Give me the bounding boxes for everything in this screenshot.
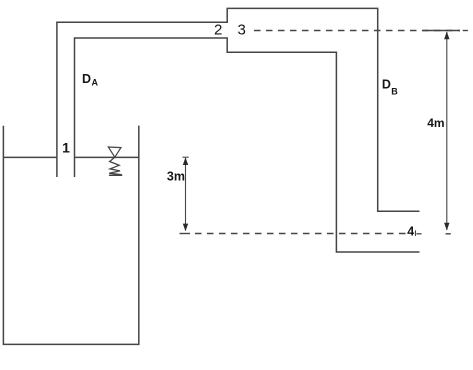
valve triangle above water surface [108,147,121,157]
3m dimension line [185,158,187,231]
svg-text:D: D [82,72,91,86]
short tick at bottom of 4m dimension [446,233,451,235]
dashed centerline at level 4 (bottom) [195,233,406,235]
tank (reservoir) walls [3,126,138,345]
svg-text:1: 1 [62,140,70,156]
3m dimension bottom arrowhead [183,224,188,232]
3m dimension top tick [183,156,189,158]
svg-text:3m: 3m [167,170,185,184]
final dash of top centerline [463,30,468,32]
3m dimension top arrowhead [183,157,188,165]
tick at left end of level-4 dashed line [180,233,191,235]
svg-text:4m: 4m [427,116,444,130]
svg-text:D: D [382,78,391,92]
svg-text:B: B [391,86,398,96]
svg-text:2: 2 [214,22,222,39]
water surface line left of pipe [3,156,56,158]
4m dimension top arrowhead [444,32,449,40]
dashed centerline at level 3 (top) [254,30,460,32]
solid tick bar at top of 4m dimension [423,30,460,32]
pipe inner wall (tank inlet, D_A run, D_B run, to outlet) [75,38,420,252]
water surface line right of pipe [75,156,139,158]
valve spring below water surface [109,157,122,175]
4m dimension bottom arrowhead [444,223,449,231]
4m dimension line [446,32,448,230]
svg-text:A: A [92,77,99,87]
svg-text:3: 3 [238,22,246,39]
vertical tick after label 4 [415,230,417,236]
short dash after label 4 [417,233,422,235]
svg-text:4: 4 [407,225,414,239]
pipe outer wall (tank inlet, D_A run, D_B run, to outlet) [57,8,420,211]
